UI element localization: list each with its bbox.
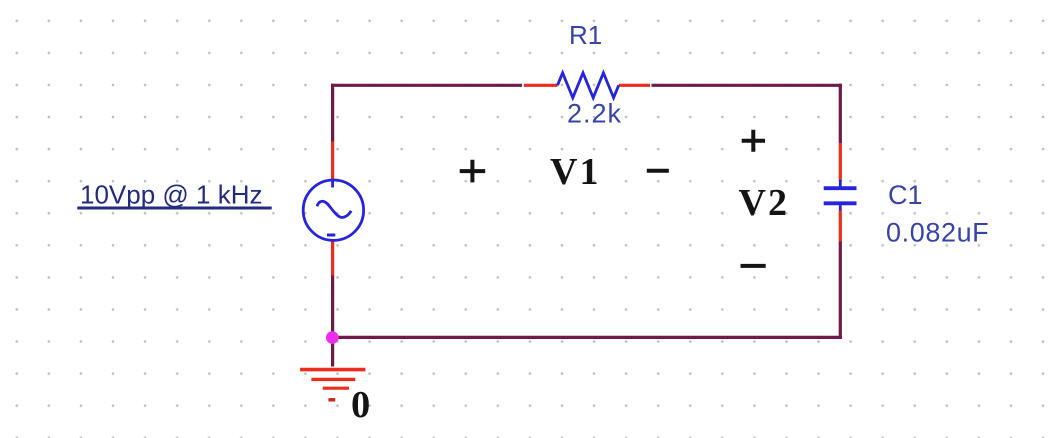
resistor R1 left pin	[524, 84, 558, 87]
capacitor C1 refdes label	[888, 180, 923, 210]
wire right vertical (C1 pin down to bottom wire)	[839, 242, 842, 340]
voltage source top pin	[331, 142, 334, 180]
svg-text:R1: R1	[569, 20, 602, 50]
svg-text:C1: C1	[888, 180, 923, 210]
voltage source plus tick (top inside)	[331, 181, 334, 188]
svg-text:2.2k: 2.2k	[567, 99, 622, 129]
svg-text:0: 0	[351, 384, 370, 426]
ground symbol bars	[300, 370, 365, 400]
wire left vertical (top wire down to source + pin)	[331, 84, 334, 142]
svg-text:0.082uF: 0.082uF	[886, 218, 989, 248]
capacitor C1 bottom pin	[839, 210, 842, 242]
capacitor C1 value label 0.082uF	[886, 218, 989, 248]
voltage source stimulus label 10Vpp @ 1 kHz	[77, 180, 271, 210]
wire top horizontal (node between source and R1)	[331, 84, 522, 87]
voltage source minus dash (bottom inside)	[327, 234, 335, 237]
capacitor C1 bottom plate and tick	[824, 203, 857, 210]
probe marker V2 label	[739, 182, 789, 224]
voltage source bottom pin	[331, 241, 334, 276]
probe marker V1 minus sign	[647, 169, 669, 173]
voltage source sine wave	[317, 201, 351, 217]
wire right vertical (top wire down to C1 pin)	[839, 84, 842, 144]
capacitor C1 top pin	[839, 143, 842, 181]
resistor R1 zigzag body	[558, 73, 619, 98]
resistor R1 right pin	[619, 84, 650, 87]
wire left vertical (source - pin down to junction)	[331, 276, 334, 338]
resistor R1 value label 2.2k	[567, 99, 622, 129]
wire top horizontal (node between R1 and C1)	[652, 84, 842, 87]
probe marker V2 plus sign	[742, 130, 765, 152]
probe marker V1 plus sign	[460, 160, 486, 183]
junction node dot	[326, 331, 339, 344]
voltage source V body circle	[303, 180, 363, 240]
svg-text:10Vpp @ 1 kHz: 10Vpp @ 1 kHz	[80, 180, 262, 210]
svg-text:V2: V2	[739, 182, 789, 224]
ground node 0 label	[351, 384, 370, 426]
probe marker V2 minus sign	[741, 264, 766, 268]
wire ground stem (junction down to ground symbol)	[331, 337, 334, 366]
svg-text:V1: V1	[550, 151, 600, 193]
probe marker V1 label	[550, 151, 600, 193]
resistor R1 refdes label	[569, 20, 602, 50]
capacitor C1 top plate and tick	[824, 180, 857, 188]
wire bottom horizontal (junction to right vertical)	[333, 336, 842, 339]
